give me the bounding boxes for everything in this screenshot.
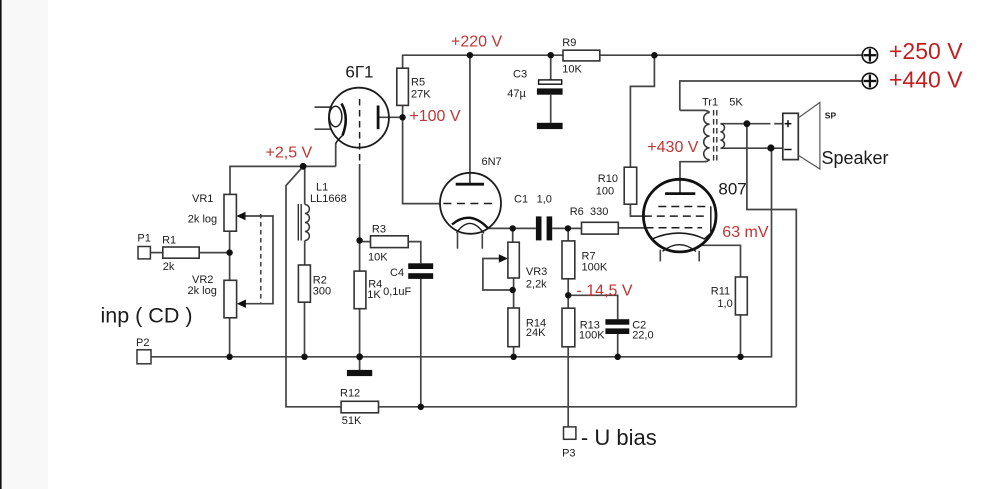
svg-text:300: 300 bbox=[313, 286, 331, 298]
svg-text:2k log: 2k log bbox=[188, 285, 217, 297]
tube 807 grid dashed rows bbox=[658, 206, 711, 208]
wire: ground rail from P2 up to speaker minus bbox=[151, 148, 772, 357]
svg-text:R5: R5 bbox=[411, 77, 425, 89]
capacitor C4 plates bbox=[408, 263, 433, 269]
svg-text:47µ: 47µ bbox=[507, 88, 526, 100]
wire: VR2 bottom to ground rail bbox=[229, 318, 231, 357]
resistor R2 300 bbox=[298, 265, 310, 302]
ground symbol bar bbox=[347, 370, 372, 376]
capacitor C1 plates bbox=[536, 216, 542, 240]
svg-text:VR3: VR3 bbox=[526, 266, 547, 278]
resistor R14 24K bbox=[508, 308, 519, 347]
svg-text:+100 V: +100 V bbox=[409, 108, 460, 125]
resistor R9 10K bbox=[563, 50, 600, 61]
svg-text:C4: C4 bbox=[390, 267, 404, 279]
speaker minus mark bbox=[784, 149, 791, 151]
svg-text:R12: R12 bbox=[340, 388, 360, 400]
tube 6N7 grid dashed bbox=[443, 203, 495, 205]
svg-text:VR1: VR1 bbox=[192, 193, 213, 205]
node: ground R14 bbox=[510, 354, 516, 360]
svg-text:6Г1: 6Г1 bbox=[345, 62, 373, 81]
speaker plus mark bbox=[785, 123, 792, 125]
wire: R13 bottom to P3 bbox=[567, 295, 569, 308]
svg-text:R6: R6 bbox=[570, 206, 584, 218]
wire: +2.5V rail (VR1 top corner to cathode) bbox=[230, 166, 336, 194]
capacitor C3 negative plate bbox=[537, 88, 563, 94]
node: +2.5V bbox=[300, 163, 307, 170]
wire: VR1 wiper link bbox=[243, 216, 273, 304]
node: ground VR2 bbox=[226, 354, 232, 360]
svg-text:100: 100 bbox=[596, 186, 614, 198]
inductor L1 winding bbox=[305, 205, 310, 241]
left margin strip bbox=[0, 0, 48, 489]
wire: C1 right to R6 bbox=[552, 227, 581, 229]
transformer Tr1 secondary winding bbox=[720, 124, 724, 149]
svg-text:R9: R9 bbox=[562, 37, 576, 49]
tube 6G1 diode ring bbox=[329, 106, 342, 126]
resistor R10 100 bbox=[624, 167, 637, 204]
capacitor C2 plates bbox=[605, 319, 629, 325]
svg-text:+220 V: +220 V bbox=[451, 33, 502, 50]
node: C4 / R12 bbox=[418, 404, 424, 410]
node: VR3 bottom bbox=[510, 287, 516, 293]
tube 807 heater legs bbox=[659, 250, 661, 262]
tube 807 envelope bbox=[643, 179, 716, 252]
wire: node +2.5V diagonal to R12 column bbox=[286, 166, 341, 406]
svg-text:2k: 2k bbox=[163, 261, 175, 273]
svg-text:330: 330 bbox=[590, 206, 608, 218]
wire: C3 to ground bar bbox=[550, 95, 552, 123]
node: R3/R4 grid bbox=[356, 237, 362, 243]
svg-text:10K: 10K bbox=[562, 64, 582, 76]
resistor R7 100K bbox=[562, 241, 575, 279]
transformer Tr1 primary winding bbox=[704, 113, 710, 160]
capacitor C3 47u positive plate bbox=[539, 80, 562, 84]
node: ground R4 bbox=[356, 353, 363, 360]
wire: R10 bottom to 807 screen grid bbox=[630, 204, 643, 216]
tube 6N7 heater legs bbox=[457, 233, 459, 249]
terminal +440V bbox=[862, 73, 877, 88]
wire: R2 bottom to ground rail bbox=[304, 302, 306, 357]
svg-text:807: 807 bbox=[718, 180, 746, 199]
wire: P1 to R1 bbox=[150, 252, 162, 254]
svg-text:R11: R11 bbox=[711, 285, 730, 297]
svg-text:0,1uF: 0,1uF bbox=[383, 286, 411, 298]
node: C1 / R6 / R7 bbox=[565, 225, 571, 231]
svg-text:Tr1: Tr1 bbox=[702, 96, 718, 108]
svg-text:51K: 51K bbox=[342, 415, 362, 427]
bias jack P3 bbox=[564, 427, 576, 439]
svg-text:C3: C3 bbox=[513, 69, 527, 81]
svg-text:22,0: 22,0 bbox=[632, 330, 653, 342]
wire: VR3 wiper link bbox=[483, 259, 513, 291]
svg-text:63 mV: 63 mV bbox=[722, 224, 769, 241]
tube 6G1 grid dashed line bbox=[359, 99, 361, 164]
wire: VR1 bottom to VR2 top bbox=[229, 231, 231, 280]
wire: C3 top lead bbox=[550, 55, 552, 80]
svg-text:R10: R10 bbox=[598, 173, 618, 185]
resistor R5 27K bbox=[163, 50, 748, 413]
tube 6N7 heater arc bbox=[457, 223, 484, 233]
wire: 6G1 heater stub lower bbox=[315, 128, 332, 130]
svg-text:- 14,5 V: - 14,5 V bbox=[577, 282, 633, 299]
node: ground R11 bbox=[737, 354, 743, 360]
svg-text:C1: C1 bbox=[514, 194, 528, 206]
tube 6N7 plate bar bbox=[456, 183, 484, 186]
svg-text:1,0: 1,0 bbox=[717, 298, 732, 310]
wire: R11 bottom to ground rail bbox=[740, 315, 742, 357]
svg-text:P3: P3 bbox=[562, 447, 575, 459]
wire: 807 cathode to R11 bbox=[701, 245, 741, 277]
svg-text:2,2k: 2,2k bbox=[526, 278, 547, 290]
svg-text:inp ( CD ): inp ( CD ) bbox=[101, 304, 193, 328]
svg-text:+250 V: +250 V bbox=[889, 38, 963, 64]
wire: C4 bottom to R12 rail bbox=[420, 279, 422, 407]
svg-text:R1: R1 bbox=[162, 235, 176, 247]
resistor R3 10K bbox=[371, 236, 409, 248]
wire: VR3 top lead bbox=[512, 228, 514, 242]
node: -14.5V bbox=[565, 292, 571, 298]
potentiometer VR2 bbox=[224, 280, 237, 318]
svg-text:24K: 24K bbox=[526, 327, 546, 339]
wire: +250 terminal lead bbox=[856, 54, 862, 56]
wire: R3 right lead down to C4 bbox=[408, 242, 421, 264]
wire: Tr1 secondary top lead to speaker plus bbox=[721, 123, 770, 125]
resistor R6 330 bbox=[582, 222, 619, 234]
tube 6G1 cathode arc bbox=[342, 104, 346, 136]
wire: C2 bottom to ground rail bbox=[617, 334, 619, 357]
svg-text:P1: P1 bbox=[137, 232, 150, 244]
tube 807 cathode arc bbox=[652, 233, 706, 239]
wire: R9-right down-jog to R10 top bbox=[630, 55, 654, 167]
svg-text:2k log: 2k log bbox=[188, 213, 217, 225]
wire: R7 leads bbox=[567, 228, 569, 241]
wire: R6 right to 807 control grid bbox=[618, 227, 645, 229]
resistor R12 51K bbox=[341, 401, 378, 413]
wire: R12 right to feedback riser from speaker plus bbox=[379, 406, 797, 408]
wire: Tr1 primary top lead bbox=[680, 110, 710, 112]
svg-text:+440 V: +440 V bbox=[889, 67, 963, 93]
svg-text:R3: R3 bbox=[372, 223, 386, 235]
svg-text:SP: SP bbox=[825, 110, 837, 120]
speaker driver rectangle bbox=[783, 113, 799, 159]
tube 6G1 plate bar bbox=[377, 106, 380, 130]
tube 807 heater arc bbox=[663, 245, 697, 252]
wire: 6G1 cathode lead down to +2.5V rail bbox=[335, 143, 337, 166]
terminal +250V bbox=[862, 48, 877, 63]
potentiometer VR1 bbox=[224, 194, 236, 231]
wire: R5 bottom / +100V node down to 6N7 grid bbox=[403, 105, 441, 203]
node: speaker plus bbox=[744, 120, 751, 127]
svg-text:P2: P2 bbox=[136, 337, 149, 349]
resistor R13 100K bbox=[562, 308, 575, 347]
svg-text:- U bias: - U bias bbox=[581, 425, 657, 450]
wire: L1 top lead bbox=[304, 166, 306, 204]
svg-text:10K: 10K bbox=[368, 251, 388, 263]
svg-text:L1: L1 bbox=[316, 182, 328, 194]
node: VR1/VR2/R1 bbox=[226, 249, 232, 255]
wire: 6G1 grid column solid part to R3 node bbox=[359, 164, 361, 241]
input jack P2 bbox=[137, 350, 151, 364]
svg-text:5K: 5K bbox=[729, 96, 743, 108]
svg-text:VR2: VR2 bbox=[192, 274, 213, 286]
wire: 807 plate riser / Tr1 primary bottom lead bbox=[680, 160, 710, 194]
svg-text:+2,5 V: +2,5 V bbox=[266, 145, 313, 162]
wire: 6N7 plate riser bbox=[469, 55, 471, 184]
svg-text:LL1668: LL1668 bbox=[310, 193, 347, 205]
node: +100V bbox=[399, 114, 405, 120]
resistor R11 1,0 bbox=[735, 277, 747, 315]
node: ground R2 bbox=[301, 354, 307, 360]
wire: R4 leads bbox=[359, 241, 361, 272]
wire: VR3 bottom lead bbox=[513, 278, 515, 290]
wire: R14 leads bbox=[513, 290, 515, 308]
resistor R1 2k bbox=[163, 247, 199, 258]
wiper arrow VR3 bbox=[499, 254, 508, 262]
wire: 6G1 heater stub upper bbox=[315, 106, 332, 108]
red voltage labels bbox=[266, 33, 769, 299]
input jack P1 bbox=[138, 247, 150, 259]
tube 807 plate bar bbox=[665, 192, 695, 195]
svg-text:100K: 100K bbox=[582, 261, 608, 273]
wire: +440V rail from Tr1 primary top to +440 terminal bbox=[680, 81, 862, 110]
node: speaker minus bbox=[767, 144, 774, 151]
node: 6N7 cathode / C1 / VR3 bbox=[510, 225, 516, 231]
inductor L1 core lines bbox=[297, 204, 299, 241]
wire: Tr1 secondary bottom lead to speaker minus bbox=[721, 147, 783, 149]
transformer Tr1 core dashed lines bbox=[713, 110, 715, 163]
wiper arrow VR1 bbox=[236, 212, 245, 220]
left edge black line bbox=[0, 0, 2, 489]
node: ground C2 bbox=[615, 354, 621, 360]
wire: +220V main rail from R5 top to +250 terminal bbox=[403, 55, 863, 68]
svg-text:6N7: 6N7 bbox=[482, 156, 502, 168]
wire: R3 left lead bbox=[360, 241, 371, 243]
wire: R1 to VR1/VR2 junction bbox=[199, 252, 229, 254]
wire: ground symbol lead bbox=[359, 357, 361, 370]
svg-text:1,0: 1,0 bbox=[537, 194, 552, 206]
gang dashed link VR1-VR2 bbox=[260, 214, 262, 303]
potentiometer VR3 2,2k bbox=[508, 242, 519, 278]
node: C3/R9 left bbox=[548, 52, 554, 58]
svg-text:+430 V: +430 V bbox=[647, 139, 698, 156]
tube 807 beam plate link bbox=[705, 207, 711, 239]
wire: -14.5V node to C2 bbox=[568, 295, 618, 319]
svg-text:Speaker: Speaker bbox=[822, 148, 889, 168]
tube 6N7 envelope bbox=[440, 173, 501, 234]
svg-text:100K: 100K bbox=[579, 330, 605, 342]
wire: 6N7 cathode to C1 bbox=[488, 227, 536, 229]
svg-text:1K: 1K bbox=[367, 289, 381, 301]
wiper arrow VR2 bbox=[237, 300, 246, 308]
svg-text:27K: 27K bbox=[411, 88, 431, 100]
tube 6G1 envelope bbox=[329, 88, 389, 148]
speaker cone bbox=[798, 102, 820, 169]
node: R9 right / +250 bbox=[651, 52, 657, 58]
wire: 6G1 plate to +100V node bbox=[378, 116, 403, 118]
node: 6N7 plate on +220 rail bbox=[467, 52, 473, 58]
wire: L1 bottom lead to R2 bbox=[304, 241, 306, 266]
resistor R4 1K bbox=[354, 271, 366, 309]
ground bar below C3 bbox=[537, 123, 563, 129]
tube 6N7 cathode arc bbox=[452, 218, 488, 228]
